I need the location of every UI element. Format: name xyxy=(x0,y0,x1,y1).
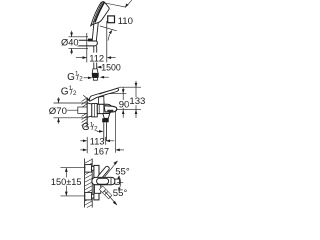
inlet pipe in wall xyxy=(78,107,87,113)
body collar line xyxy=(110,178,112,185)
svg-text:110: 110 xyxy=(118,16,133,27)
upper union xyxy=(85,165,92,173)
text dia40 xyxy=(61,38,79,46)
union nut xyxy=(92,104,98,117)
lever top edge xyxy=(99,87,120,94)
wall strip hatching xyxy=(85,159,93,207)
hose cone xyxy=(92,69,98,73)
lever base capsule on body xyxy=(97,178,109,184)
lever neck cap xyxy=(98,96,104,104)
spout side xyxy=(104,106,117,112)
angle arc xyxy=(118,176,120,191)
bottom 55 ray xyxy=(105,191,117,205)
hose nut xyxy=(92,73,99,77)
hose below outlet xyxy=(103,122,105,140)
svg-text:133: 133 xyxy=(129,96,145,107)
hose outlet stub front xyxy=(94,185,100,194)
hose lower segment xyxy=(93,63,95,69)
sq110 arrow bottom xyxy=(109,30,113,34)
shower head (edge-on slab) xyxy=(91,2,109,26)
svg-text:150±15: 150±15 xyxy=(51,177,82,187)
hose cone front xyxy=(101,188,111,198)
svg-text:113: 113 xyxy=(90,136,105,146)
axis stub xyxy=(117,182,123,184)
text 133 xyxy=(129,97,142,105)
svg-text:G: G xyxy=(67,72,75,83)
leader 1500 xyxy=(97,66,101,69)
wall face line xyxy=(86,98,88,128)
sq110 ext bottom xyxy=(100,26,117,31)
cone joint lines xyxy=(103,190,106,193)
outlet nut xyxy=(102,118,109,122)
holder bar xyxy=(78,40,97,46)
svg-text:Ø40: Ø40 xyxy=(61,37,79,47)
hose stub xyxy=(93,78,97,81)
dimension dia40 xyxy=(69,36,89,38)
inlet centerline xyxy=(67,109,78,111)
shower handle xyxy=(92,18,99,42)
svg-text:G: G xyxy=(61,87,69,98)
square symbol xyxy=(108,16,115,23)
dimension 113 xyxy=(80,140,86,142)
dimension 112 xyxy=(76,57,86,59)
svg-text:2: 2 xyxy=(79,75,83,82)
text 90 xyxy=(117,100,129,108)
holder clamp dark xyxy=(88,39,94,42)
manifold lower xyxy=(94,184,99,200)
mixer body side xyxy=(97,104,112,113)
spout aerator xyxy=(107,110,113,113)
svg-text:90: 90 xyxy=(119,99,130,110)
svg-text:G: G xyxy=(82,122,90,133)
leader G1/2 side inlet xyxy=(83,95,89,100)
mixer body front xyxy=(92,177,115,184)
lever side xyxy=(89,88,118,101)
lower union xyxy=(85,192,92,200)
svg-text:2: 2 xyxy=(73,90,77,97)
extension spout tip down xyxy=(115,110,117,152)
hose upper segment xyxy=(93,46,95,53)
outlet stub xyxy=(103,114,110,119)
svg-text:1500: 1500 xyxy=(101,62,121,72)
text dia70 xyxy=(47,106,66,114)
dimension 150+-15 xyxy=(61,167,86,169)
extension line through bar (112 left) xyxy=(86,33,88,62)
cartridge cap xyxy=(115,179,120,184)
leader G1/2 outlet xyxy=(97,130,103,132)
wall hatching xyxy=(82,98,88,128)
top 55 ray xyxy=(103,161,118,179)
svg-text:55°: 55° xyxy=(113,188,128,199)
dimension sq110 ext top xyxy=(105,3,126,7)
wall strip xyxy=(84,159,86,208)
svg-text:Ø70: Ø70 xyxy=(49,106,67,117)
cartridge pivot xyxy=(103,102,105,105)
dimension 167 xyxy=(80,149,86,151)
head face rim curves xyxy=(93,2,103,24)
dimension 90 xyxy=(110,93,126,95)
dimension 133 xyxy=(120,86,142,88)
opposing arrow right of nut xyxy=(100,76,104,79)
escutcheon rosette xyxy=(87,103,92,117)
svg-text:55°: 55° xyxy=(115,166,130,177)
extension wall face down xyxy=(86,137,88,153)
leader G1/2 hose xyxy=(84,77,92,79)
sq110 arrow top xyxy=(125,4,129,8)
svg-text:167: 167 xyxy=(94,146,109,156)
manifold upper xyxy=(94,165,99,178)
lever front xyxy=(97,166,110,180)
dimension dia70 xyxy=(54,102,88,104)
text 150+-15 xyxy=(50,177,81,185)
